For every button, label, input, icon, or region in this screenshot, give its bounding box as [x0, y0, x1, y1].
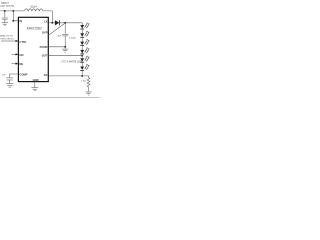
LED D5 [80, 48, 89, 59]
svg-text:2 TO 6 WHITE LEDs: 2 TO 6 WHITE LEDs [61, 62, 83, 64]
node junction dot output [64, 22, 66, 24]
wire IN pin drop [13, 11, 18, 21]
capacitor C1 input bypass [2, 11, 8, 23]
svg-text:2.6V TO 5.5V: 2.6V TO 5.5V [0, 6, 14, 8]
wire CTRL input [1, 40, 16, 42]
svg-text:ON: ON [19, 53, 23, 57]
svg-text:FB: FB [44, 73, 48, 77]
svg-text:7.5Ω: 7.5Ω [81, 81, 86, 83]
svg-text:OVP: OVP [42, 31, 48, 35]
svg-text:ANALOG OR: ANALOG OR [0, 34, 13, 37]
wire input rail [0, 10, 24, 12]
diode D1 rectifier [55, 20, 59, 25]
svg-text:PGND: PGND [40, 45, 48, 49]
ground under IC GND [31, 88, 38, 91]
ground under output capacitor [62, 49, 68, 52]
op IC U1 MAX1582 box [18, 17, 48, 81]
LED D3 [80, 31, 89, 42]
node junction dot at LX [51, 22, 53, 24]
wire OUT tap to LED string [48, 55, 82, 57]
svg-text:OUT: OUT [42, 53, 48, 57]
wire output rail [60, 22, 82, 24]
LED D2 [80, 23, 89, 34]
node junction dot at IN drop [12, 10, 14, 12]
wire NE pin input arrow [12, 63, 16, 65]
wire GND pin stub [34, 82, 36, 88]
svg-text:1nF: 1nF [2, 74, 6, 76]
LED D6 [80, 56, 89, 67]
ground under COMP capacitor [6, 84, 13, 87]
wire OVP diagonal to output node [48, 23, 65, 35]
bottom rule [0, 96, 100, 98]
wire ON pin input arrow [12, 53, 16, 55]
svg-text:MAX1582: MAX1582 [27, 26, 42, 30]
node junction dot PGND [64, 46, 66, 48]
wire LX output [48, 22, 55, 24]
svg-text:10µH: 10µH [30, 4, 36, 8]
node junction dot LED string bottom [81, 75, 83, 77]
svg-text:GND: GND [33, 78, 39, 82]
wire output to LED column [81, 23, 83, 25]
LED D7 [80, 64, 89, 76]
svg-text:INPUT: INPUT [1, 1, 9, 5]
svg-text:CTRL: CTRL [19, 40, 27, 44]
LED D4 [80, 39, 89, 50]
node junction dot at input cap [4, 10, 6, 12]
node junction dot at IN pin [12, 20, 14, 22]
ground under resistor R1 [85, 92, 91, 95]
svg-text:IN: IN [19, 19, 22, 23]
svg-text:1µF: 1µF [57, 35, 61, 37]
svg-text:LX: LX [44, 20, 48, 24]
wire inductor to LX node [43, 11, 52, 23]
ground under input capacitor [2, 23, 8, 26]
svg-text:NE: NE [19, 62, 23, 66]
wire PGND to ground [48, 47, 65, 49]
svg-text:0.22µF: 0.22µF [69, 37, 77, 39]
node junction dot LED tap [81, 55, 83, 57]
svg-text:COMP: COMP [19, 73, 27, 77]
wire FB to sense resistor [48, 76, 88, 78]
svg-text:PWM CONTROL: PWM CONTROL [0, 38, 14, 40]
